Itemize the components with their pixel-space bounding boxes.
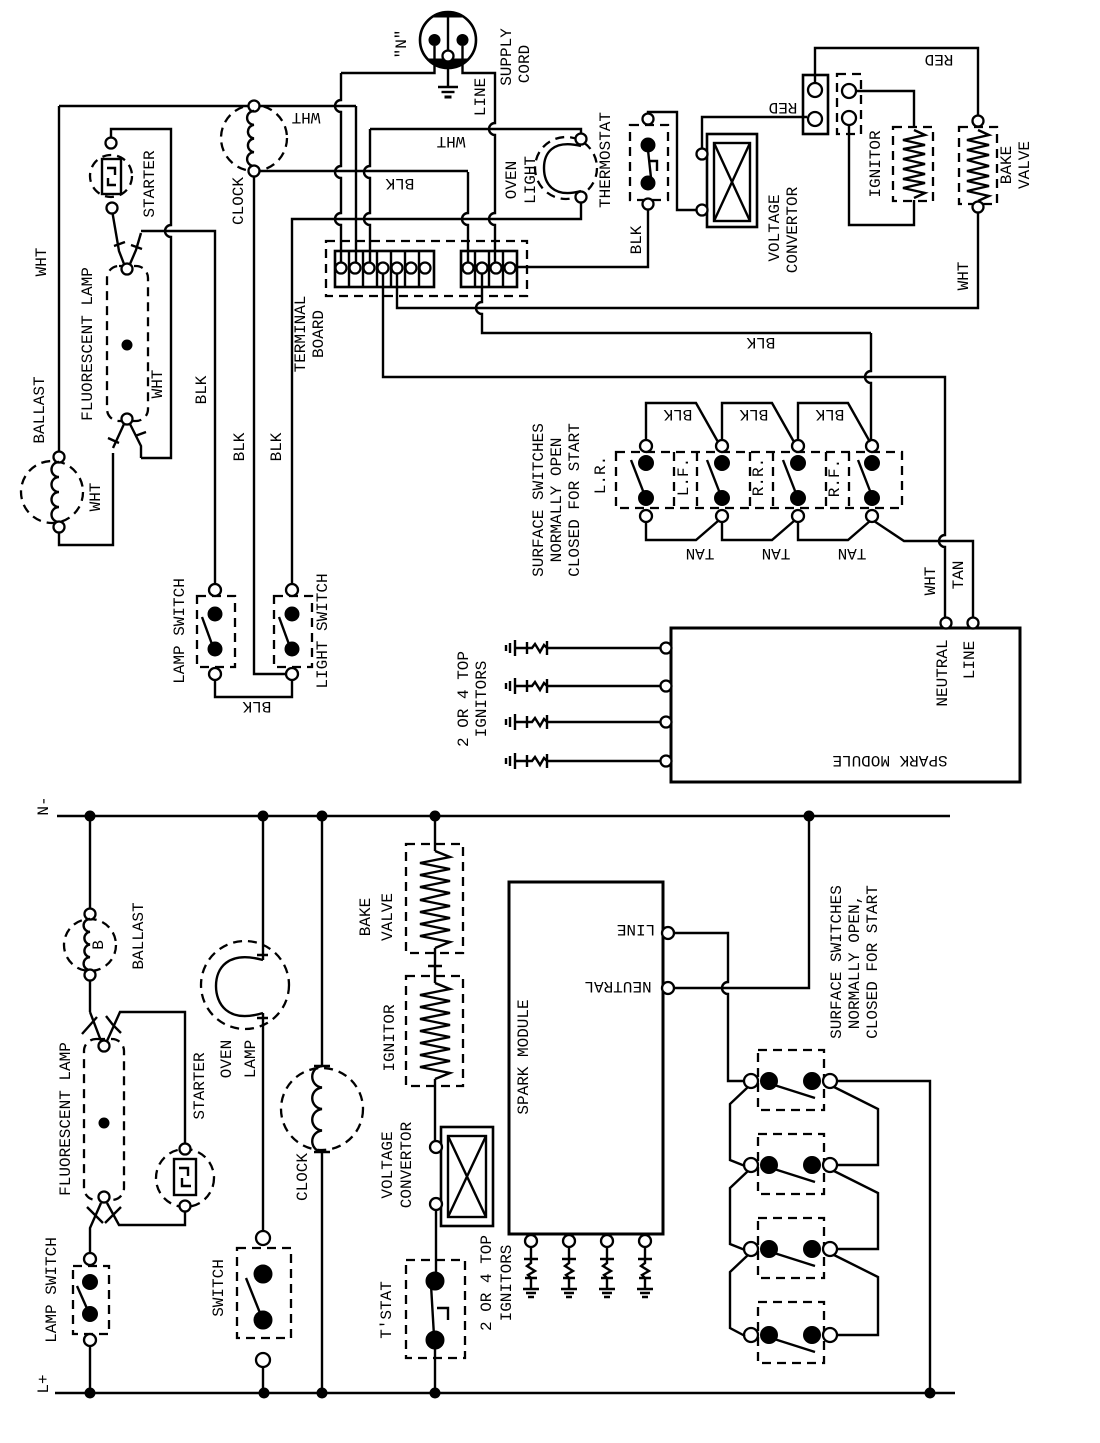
spark ignitor G3 xyxy=(506,714,660,730)
oven light E1 xyxy=(535,134,597,203)
wire RED connector J1 to bake valve top xyxy=(815,48,978,116)
svg-text:"N": "N" xyxy=(393,30,411,59)
svg-text:WHT: WHT xyxy=(437,132,466,150)
svg-text:LIGHT SWITCH: LIGHT SWITCH xyxy=(314,573,332,688)
svg-text:WHT: WHT xyxy=(149,370,167,399)
svg-text:CONVERTOR: CONVERTOR xyxy=(398,1121,416,1208)
wire lamp switch to L+ xyxy=(89,1346,91,1393)
svg-text:TAN: TAN xyxy=(950,561,968,590)
svg-text:BAKE: BAKE xyxy=(357,898,375,936)
svg-text:OVEN: OVEN xyxy=(503,161,521,199)
svg-text:CLOCK: CLOCK xyxy=(294,1153,312,1201)
wire left chain row1-row2 xyxy=(730,1087,748,1166)
wire left chain row3-row4 xyxy=(730,1255,748,1336)
wire WHT strip1 cell4 to spark module (hop x871 handled above) xyxy=(383,273,945,617)
svg-text:VOLTAGE: VOLTAGE xyxy=(766,194,784,261)
svg-text:VOLTAGE: VOLTAGE xyxy=(379,1131,397,1198)
svg-text:LAMP SWITCH: LAMP SWITCH xyxy=(43,1237,61,1343)
svg-text:BLK: BLK xyxy=(268,432,286,461)
wire LINE to surface switches (hop over neutral wire) xyxy=(674,933,745,1081)
svg-text:SPARK MODULE: SPARK MODULE xyxy=(832,751,947,769)
spark ignitor G5 (bottom) xyxy=(523,1247,539,1297)
svg-text:SWITCH: SWITCH xyxy=(210,1259,228,1317)
svg-text:CLOCK: CLOCK xyxy=(230,177,248,225)
svg-text:BLK: BLK xyxy=(628,225,646,254)
wire surface switch feed down (hop y377) xyxy=(865,333,871,440)
wire ballast to lamp top pin xyxy=(82,981,101,1042)
starter S2 (bottom) xyxy=(156,1144,214,1212)
wire right chain row3-row4 xyxy=(834,1255,878,1335)
svg-text:SUPPLY: SUPPLY xyxy=(498,28,516,86)
svg-text:T'STAT: T'STAT xyxy=(378,1281,396,1339)
terminal board TB1 xyxy=(326,241,527,296)
surface switch L.F. contacts xyxy=(707,440,730,522)
svg-text:CORD: CORD xyxy=(516,45,534,83)
wire ignitor to voltage convertor xyxy=(434,1079,436,1141)
svg-text:VALVE: VALVE xyxy=(1016,141,1034,189)
svg-text:FLUORESCENT LAMP: FLUORESCENT LAMP xyxy=(57,1042,75,1196)
wire VC top terminal RED to connector xyxy=(702,117,807,149)
svg-text:TAN: TAN xyxy=(838,544,867,562)
svg-text:BLK: BLK xyxy=(193,375,211,404)
lamp switch SW1 (top) xyxy=(197,584,235,680)
wire thermostat top to voltage convertor lower terminal xyxy=(648,112,696,210)
svg-text:CLOSED FOR START: CLOSED FOR START xyxy=(566,423,584,577)
svg-text:RED: RED xyxy=(925,50,954,68)
wire N- to clock xyxy=(321,816,323,1066)
clock CL1 xyxy=(221,101,287,177)
svg-text:BLK: BLK xyxy=(385,174,414,192)
svg-text:CONVERTOR: CONVERTOR xyxy=(784,186,802,273)
svg-text:NORMALLY OPEN: NORMALLY OPEN xyxy=(548,438,566,563)
lamp top pins xyxy=(113,213,142,264)
svg-text:LINE: LINE xyxy=(472,78,490,116)
wire TAN bracket u1-u2 xyxy=(646,521,718,540)
svg-text:WHT: WHT xyxy=(955,262,973,291)
ballast B2 (bottom) xyxy=(64,909,116,981)
surface switch block dashed box (top) xyxy=(616,452,902,508)
svg-text:IGNITORS: IGNITORS xyxy=(473,661,491,738)
svg-text:BLK: BLK xyxy=(739,405,768,423)
svg-text:NEUTRAL: NEUTRAL xyxy=(934,639,952,706)
svg-text:BLK: BLK xyxy=(231,432,249,461)
wire ballast top up to WHT rail xyxy=(58,106,60,452)
wire plug right pin LINE down to terminal strip2 cell3 (hops y129, y219) xyxy=(463,46,496,262)
wire BLK joining switch bottoms xyxy=(215,680,292,697)
wire BLK strip2 cell2 to surface switches (hop y308) xyxy=(476,273,871,333)
wire WHT y129 to oven light top xyxy=(364,129,581,262)
lamp bottom pins xyxy=(113,424,141,458)
svg-text:L.R.: L.R. xyxy=(592,456,610,494)
oven lamp E2 (bottom) xyxy=(201,941,289,1029)
svg-text:NEUTRAL: NEUTRAL xyxy=(584,977,651,995)
wire right chain row1-row2 xyxy=(834,1087,878,1165)
t'stat TH2 (bottom) xyxy=(406,1260,465,1358)
wire N- to bake valve xyxy=(434,816,436,851)
svg-text:RED: RED xyxy=(769,98,798,116)
wire BLK bracket u1-u2 xyxy=(646,403,718,442)
wire J2 bottom to ignitor bottom xyxy=(849,125,914,225)
svg-text:BOARD: BOARD xyxy=(310,310,328,358)
wire BLK bracket u3-u4 xyxy=(798,403,870,442)
wire row1 right to L+ rail xyxy=(837,1081,930,1393)
voltage convertor VC2 (bottom) xyxy=(430,1127,493,1226)
svg-text:2 OR 4 TOP: 2 OR 4 TOP xyxy=(478,1235,496,1331)
ground xyxy=(438,68,458,97)
wire ballast bottom to lamp lower-left pin xyxy=(59,453,113,545)
svg-text:L+: L+ xyxy=(35,1374,53,1393)
svg-text:B: B xyxy=(90,940,108,950)
svg-text:OVEN: OVEN xyxy=(218,1040,236,1078)
svg-text:BLK: BLK xyxy=(746,333,775,351)
bake valve BV1 (top) xyxy=(959,116,997,213)
surface switch R.R. contacts xyxy=(783,440,806,522)
svg-text:L.F.: L.F. xyxy=(675,458,693,496)
svg-text:R.F.: R.F. xyxy=(826,459,844,497)
fluorescent lamp FL1 (top) xyxy=(107,264,148,425)
junction dots on N- rail xyxy=(85,811,95,821)
wire NEUTRAL to N- rail xyxy=(674,816,809,988)
connector J2 xyxy=(837,74,861,134)
bake valve BV2 (bottom) xyxy=(406,844,463,953)
surface switch row 2 contacts xyxy=(744,1157,837,1183)
spark module SM1 (top) xyxy=(661,618,1021,783)
svg-text:WHT: WHT xyxy=(87,483,105,512)
svg-text:IGNITOR: IGNITOR xyxy=(381,1004,399,1072)
surface switch L.R. contacts xyxy=(631,440,654,522)
svg-text:STARTER: STARTER xyxy=(141,150,159,218)
svg-text:BAKE: BAKE xyxy=(998,146,1016,184)
wire clock bottom BLK to strip2 cell1 (hop y219) xyxy=(260,171,469,262)
svg-text:BLK: BLK xyxy=(815,405,844,423)
svg-text:BLK: BLK xyxy=(242,697,271,715)
svg-text:FLUORESCENT LAMP: FLUORESCENT LAMP xyxy=(79,267,97,421)
spark module SM2 (bottom) xyxy=(509,882,674,1247)
lamp switch SW3 (bottom) xyxy=(73,1253,109,1346)
light switch SW2 (top) xyxy=(274,584,312,680)
lamp top right pin to starter xyxy=(106,1012,185,1143)
svg-text:IGNITOR: IGNITOR xyxy=(867,130,885,198)
wire left chain row2-row3 xyxy=(730,1171,748,1250)
wire plug left pin to terminal 1 (hops at y106,172,219) xyxy=(335,46,435,262)
svg-text:CLOSED FOR START: CLOSED FOR START xyxy=(864,885,882,1039)
wire t'stat to L+ xyxy=(434,1349,436,1393)
fluorescent lamp FL2 (bottom) xyxy=(84,1039,124,1203)
svg-text:NORMALLY OPEN,: NORMALLY OPEN, xyxy=(846,895,864,1029)
wire J2 top to ignitor top xyxy=(856,91,914,128)
svg-text:BLK: BLK xyxy=(663,405,692,423)
svg-text:LINE: LINE xyxy=(961,641,979,679)
svg-text:THERMOSTAT: THERMOSTAT xyxy=(597,112,615,208)
clock CL2 (bottom) xyxy=(281,1066,363,1152)
thermostat TH1 xyxy=(630,114,668,210)
svg-text:N-: N- xyxy=(35,796,53,815)
wire oven lamp to switch xyxy=(262,1013,264,1232)
starter bottom to lamp bottom right pin xyxy=(105,1203,185,1225)
surface switch boxes (bottom) xyxy=(758,1050,824,1363)
ignitor R1 (top) xyxy=(893,127,933,201)
oven lamp switch SW4 (bottom) xyxy=(237,1231,291,1367)
surface switch row 4 contacts xyxy=(744,1327,837,1353)
svg-text:WHT: WHT xyxy=(922,567,940,596)
spark ignitor G2 xyxy=(506,678,660,694)
svg-text:LAMP SWITCH: LAMP SWITCH xyxy=(171,578,189,684)
svg-text:STARTER: STARTER xyxy=(191,1052,209,1120)
svg-text:SURFACE SWITCHES: SURFACE SWITCHES xyxy=(530,423,548,577)
node L+ rail xyxy=(55,1392,955,1394)
svg-text:2 OR 4 TOP: 2 OR 4 TOP xyxy=(455,651,473,747)
wire voltage convertor to t'stat xyxy=(435,1210,437,1275)
wire N- to ballast xyxy=(89,816,91,908)
wire clock to L+ xyxy=(321,1152,323,1393)
wire TAN bracket u3-u4 xyxy=(798,521,870,540)
spark ignitor G6 (bottom) xyxy=(561,1247,577,1297)
wire switch to L+ xyxy=(262,1367,264,1393)
svg-text:SURFACE SWITCHES: SURFACE SWITCHES xyxy=(828,885,846,1039)
spark ignitor G4 xyxy=(506,753,660,769)
svg-text:WHT: WHT xyxy=(33,248,51,277)
surface switch row 1 contacts xyxy=(744,1073,837,1099)
supply cord plug P1 xyxy=(420,12,476,68)
wire thermostat bottom BLK to strip2 cell4 xyxy=(515,210,648,268)
svg-text:TAN: TAN xyxy=(762,544,791,562)
svg-text:LIGHT: LIGHT xyxy=(522,156,540,204)
svg-text:WHT: WHT xyxy=(292,108,321,126)
wire TAN bracket u2-u3 xyxy=(722,521,794,540)
junction dots on L+ rail xyxy=(85,1388,95,1398)
connector J1 xyxy=(803,75,828,134)
surface switch R.F. contacts xyxy=(858,440,880,522)
spark ignitor G8 (bottom) xyxy=(637,1247,653,1297)
spark ignitor G7 (bottom) xyxy=(599,1247,615,1297)
svg-text:SPARK MODULE: SPARK MODULE xyxy=(515,999,533,1114)
wire BLK clock down to light switch bottom xyxy=(254,177,286,675)
wire starter loop to lamp bottom right pin (hop at y231) xyxy=(111,129,171,458)
svg-text:VALVE: VALVE xyxy=(379,893,397,941)
svg-text:LAMP: LAMP xyxy=(242,1040,260,1078)
wire BLK lamp top right pin to lamp switch xyxy=(141,231,215,585)
wire TAN u4 to spark module xyxy=(874,521,973,617)
wire BLK bracket u2-u3 xyxy=(722,403,794,442)
starter S1 (top) xyxy=(90,138,132,214)
voltage convertor VC1 (top) xyxy=(697,134,758,227)
wire right chain row2-row3 xyxy=(834,1171,878,1249)
wire bake valve to ignitor xyxy=(428,948,442,983)
wire N- to oven lamp xyxy=(262,816,264,960)
spark ignitor G1 xyxy=(506,640,660,656)
svg-text:BALLAST: BALLAST xyxy=(31,376,49,443)
ballast B1 (top) xyxy=(21,452,83,533)
surface switch row 3 contacts xyxy=(744,1241,837,1267)
svg-text:IGNITORS: IGNITORS xyxy=(498,1245,516,1322)
wire WHT top rail y106 xyxy=(59,106,356,262)
wire WHT strip1 cell5 to bake valve bottom xyxy=(397,213,978,309)
node N- rail xyxy=(57,815,950,817)
svg-text:R.R.: R.R. xyxy=(750,458,768,496)
svg-text:TAN: TAN xyxy=(686,544,715,562)
ignitor R2 (bottom) xyxy=(406,976,463,1086)
svg-text:TERMINAL: TERMINAL xyxy=(292,296,310,373)
svg-text:LINE: LINE xyxy=(617,920,655,938)
lamp bottom left pin to lamp switch xyxy=(87,1203,103,1253)
wire oven light bottom y219 to light switch vertical xyxy=(292,202,581,585)
svg-text:BALLAST: BALLAST xyxy=(130,902,148,969)
